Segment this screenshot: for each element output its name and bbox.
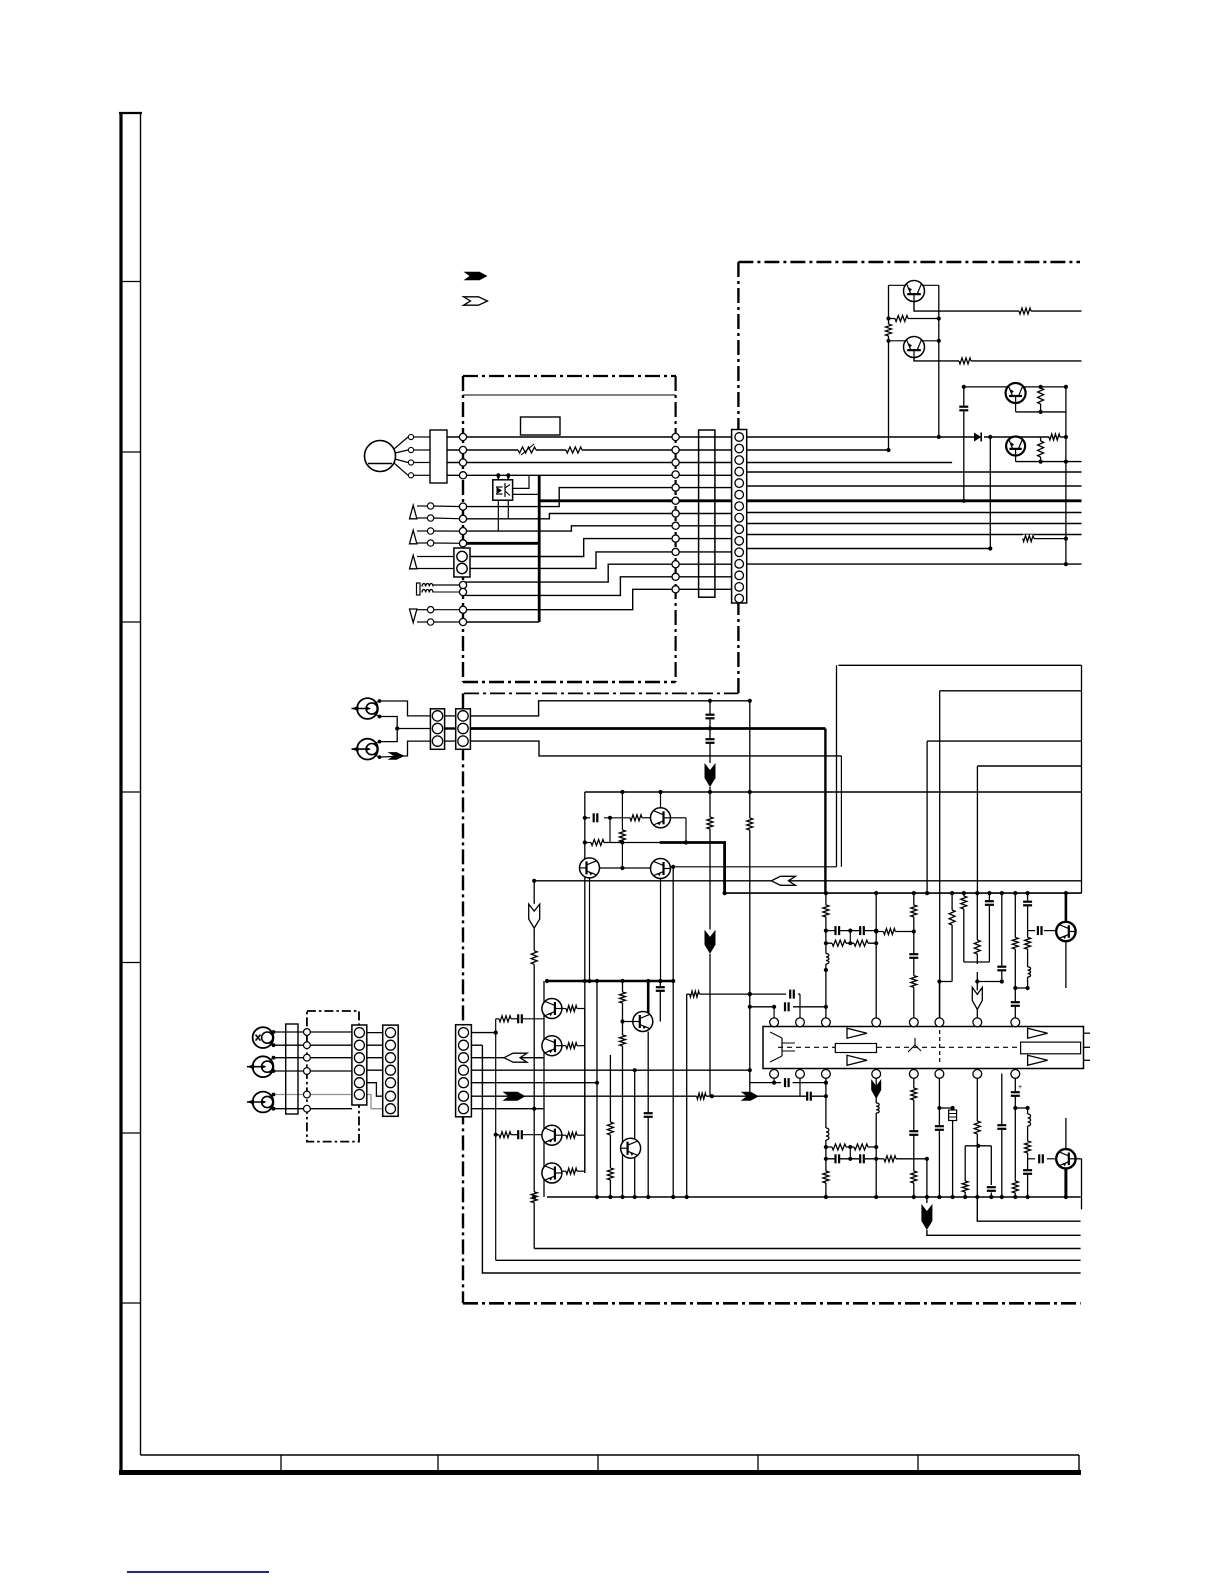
legend white signal arrow [464,297,488,305]
transistor Q11 [542,1036,562,1056]
wire rows main board [747,436,974,438]
capacitor C12 [784,1001,789,1012]
connector rows into cluster [471,1032,495,1034]
capacitor C20 polarized [1010,1091,1021,1096]
pin column wires above IC [825,893,827,1023]
resistor R11 [630,814,642,822]
connector CN-B1 [430,709,444,750]
board connector strip CN1 [732,430,747,604]
capacitor C7 [908,953,919,958]
capacitor C10 [1010,1001,1021,1006]
bottom GND bus [547,1196,1081,1198]
signal arrow down A1 [705,763,716,787]
resistor R10 [746,818,754,830]
transistor Q8 [1056,922,1075,941]
capacitor C21 [1022,1169,1033,1174]
optocoupler PC1 [493,480,513,500]
resistor R45 [697,1092,706,1100]
main board block B dash-dot border left [737,262,739,693]
input plug symbols [410,505,417,519]
motor pin circles [408,434,413,439]
IC right side stub wires [1084,1032,1091,1034]
inter-column links below IC [939,1107,952,1109]
resistor R30 [910,1171,918,1183]
resistors chain below IC [832,1143,846,1151]
white arrow down W2 [529,904,540,928]
transistor Q5 [651,808,671,828]
white arrow left W4 [504,1053,527,1062]
frame tick marks left [121,281,141,283]
pi network below IC [965,1145,991,1147]
mechanism block A dash-dot border [463,375,676,377]
capacitor C15 [806,1091,811,1102]
capacitor C26 [655,986,666,991]
connector strip CN3 [383,1025,399,1116]
resistor R22 [948,910,956,925]
strip1 strip2 links [367,1032,383,1034]
resistor R23 [960,896,968,909]
transistor Q1 [904,281,925,302]
IC inner rect [835,1044,876,1053]
transistor Q2 [904,337,925,358]
Q6 Q7 row [600,867,651,869]
block C dash-dot border left [462,693,464,1303]
staircase signal wires in block A [463,488,732,507]
row564 drop to lower net [839,664,1082,666]
junction dots [886,316,890,320]
top thick rail of Q cluster [547,980,673,983]
plug pin circles [427,503,433,509]
transistor Q12 [542,1125,562,1145]
transistor Q13 [542,1163,562,1183]
RC chain below IC [826,1146,876,1148]
variable resistor RV1 [518,446,536,454]
GND thick bus row [539,499,1081,502]
thick analog GND bus [470,727,825,730]
connector strip CN4 [456,1025,472,1117]
resistor R37 [566,1131,577,1139]
resistor R46 [690,990,700,998]
resistor R5 [1037,388,1045,404]
connector CN-B2 [456,709,471,750]
page border frame left [119,112,122,1473]
resistor R13 [618,830,626,842]
coil L-A [417,583,421,595]
vertical feed line [686,994,688,1197]
black arrow right A5 [503,1092,526,1101]
motor M1 [365,441,396,472]
Q1 output row [914,301,1019,311]
main supply bus above IC [725,892,1082,894]
coil L1 [822,954,829,965]
wire-junction connector strip [699,430,715,597]
2-pin connector CN-A [454,548,470,577]
black arrow right A7 [388,752,405,760]
capacitor C2 chain [705,714,716,719]
label box [521,417,561,435]
capacitor C4 [593,812,598,823]
resistor R43 [606,1122,614,1135]
resistor R31 [973,1121,981,1134]
top RCA jack wires [380,701,431,716]
RCA jack J3 with X [253,1027,274,1048]
resistor R36 [566,1042,577,1050]
block C dash-dot border bottom [463,1302,1081,1305]
resistor R8 [1023,535,1034,543]
frame tick marks bottom [280,1455,282,1473]
resistor R2 [885,324,893,336]
RCA jack J5 [253,1092,274,1113]
capacitor C19 [986,1186,997,1191]
resistor R6 [1049,433,1060,441]
jack block pin circles [304,1029,311,1036]
white arrow down W3 [972,987,982,1009]
Q cluster resistor stubs [562,1008,566,1010]
long row with white arrow [534,880,1081,882]
block A right edge pin circles [672,433,679,440]
motor M1 lead wires [394,437,408,449]
below-bus return rows [927,1230,1081,1235]
IC head amplifier U1 [763,1027,1084,1069]
IC inner transistor sketch mid [908,1045,915,1052]
inter-column links above IC [939,981,952,983]
white arrow left W1 [771,876,795,885]
page border frame bottom [141,1454,1080,1456]
wire junction dots top jacks [395,726,399,730]
resistor R3 [1019,307,1031,315]
resistor R27 [822,1171,830,1183]
resistor R32 [961,1181,969,1192]
transistor Q15 [621,1138,641,1158]
capacitor C13 [789,989,794,1000]
resistor R42 [619,1035,627,1046]
resistor R44 [606,1168,614,1180]
transistor Q4 [1006,437,1025,456]
capacitor chain vertical [709,701,711,763]
transistor Q10 [542,999,562,1019]
Q1 Q2 bias network wires [889,284,906,286]
resistor R15 [530,1192,538,1203]
preamp area wires [585,791,1082,793]
RCA jack J4 [253,1056,274,1077]
capacitor C1 [958,406,969,411]
resistor R28 [884,1155,896,1163]
Q cluster verticals [543,981,545,1197]
pin column wires below IC [825,1074,827,1198]
resistor R12 [591,839,604,847]
white arrow drop column [533,881,535,904]
RC input chains [496,1018,499,1020]
transistor Q3 [1006,383,1026,403]
capacitor C22 [1038,1153,1043,1164]
jack shield plate [286,1024,298,1114]
resistor R40 input [499,1131,511,1139]
coil L2 [1024,967,1031,977]
legend black signal arrow [464,272,488,280]
signal arrow down A2 [705,930,716,954]
resistor R34 [1024,1141,1032,1153]
svg-text:+: + [1018,1084,1022,1091]
capacitor C23 input [517,1013,522,1024]
head/motor wire rows in block A [447,436,732,438]
capacitor C27 [1022,901,1033,906]
capacitor C9 [996,966,1007,971]
capacitor C17 [934,1125,945,1130]
RCA jack J1 line out [357,698,378,719]
black arrow down A4 [921,1204,932,1230]
input plug rows left [417,505,431,507]
transistor Q14 [633,1012,653,1032]
resistor R14 [530,951,538,965]
resistor R19 [884,928,896,936]
diode D1 [974,433,981,442]
thick signal route [660,843,725,894]
line-in connector wires [470,701,749,716]
capacitor C11 [1037,925,1042,936]
coil L5 [1024,1114,1031,1126]
resistor R26 [1024,937,1032,949]
capacitor C16 [908,1130,919,1135]
caps chain below IC [835,1153,840,1164]
transistor Q9 [1056,1149,1075,1168]
resistor R9 [706,817,714,829]
resistor R39 input [499,1015,511,1023]
IC pins top [770,1018,779,1027]
resistor R20 [910,905,918,917]
resistor R24 [973,940,981,954]
capacitor C18 [996,1124,1007,1129]
transistor Q7 [651,859,671,879]
resistor R25 [1011,937,1019,949]
block A inner top line [463,394,676,396]
feed rows upper right [927,740,1081,742]
line wire to arrow [470,741,841,756]
resistor R33 [1011,1181,1019,1193]
ferrite bead FB1 [949,1110,957,1121]
connector dash-dot link [464,692,738,694]
resistor R41 [619,992,627,1003]
caps into IC left pins [750,1006,774,1008]
main board block B dash-dot border top [738,261,1080,264]
supply vertical with resistor [749,701,751,818]
resistor R-A2 [566,446,582,454]
resistor R29 [910,1088,918,1100]
capacitor C14 [784,1077,789,1088]
capacitor C24 input [517,1129,522,1140]
IC inner transistor sketch left [770,1032,782,1038]
capacitor C3 chain [705,738,716,743]
cap link to Q8 [1028,930,1035,932]
resistor R38 [566,1167,577,1175]
resistor R16 above IC [822,905,830,917]
Q9 wires [1065,1118,1067,1149]
resistors R17 R18 chain above IC [832,939,846,947]
jack block dash-dot border [307,1011,359,1142]
IC inner amp triangles [847,1028,867,1038]
cap link to Q9 [1028,1158,1035,1160]
IC pins bottom [770,1070,779,1079]
capacitor C25 [643,1112,654,1117]
resistor R21 [910,976,918,988]
caps out of IC left pins below [750,1082,781,1084]
transistor Q6 [580,858,600,878]
capacitor C8 [984,900,995,905]
resistor R7 [1037,441,1045,457]
block A edge pin circles [459,433,466,440]
black arrow down A3 [871,1079,881,1099]
resistor R4 [959,357,971,365]
RCA jack J2 line out [357,739,378,760]
resistor R1 [895,315,908,323]
motor connector block [430,430,447,483]
coil L4 [873,1103,880,1113]
RCA jack cluster wires [274,1031,353,1033]
optocoupler pins [497,475,499,480]
caps C5 C6 chain above IC [835,925,840,936]
thick bus in block A [463,542,539,545]
Q4 network wires [989,437,991,549]
connector strip CN2 [352,1025,367,1105]
blue link underline [127,1571,269,1573]
Q3 network wires [964,386,1066,388]
black arrow right A6 [741,1092,759,1101]
resistor R35 [566,1005,577,1013]
Q2 output row [914,357,959,361]
coil L3 [822,1128,829,1140]
RC chain above IC [826,930,876,932]
